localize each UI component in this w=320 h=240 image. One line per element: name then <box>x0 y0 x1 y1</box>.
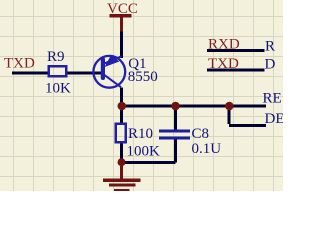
svg-text:DE: DE <box>265 111 284 127</box>
svg-text:0.1U: 0.1U <box>192 141 222 157</box>
svg-text:8550: 8550 <box>128 69 158 85</box>
svg-text:VCC: VCC <box>107 1 138 17</box>
svg-text:TXD: TXD <box>4 55 35 71</box>
svg-text:TXD: TXD <box>208 56 239 72</box>
svg-text:D: D <box>265 57 276 73</box>
svg-text:C8: C8 <box>192 126 210 142</box>
svg-text:R10: R10 <box>128 126 153 142</box>
svg-text:10K: 10K <box>45 81 71 97</box>
svg-text:R: R <box>265 39 275 55</box>
svg-text:RXD: RXD <box>208 37 240 53</box>
svg-text:100K: 100K <box>127 144 161 160</box>
svg-text:R9: R9 <box>47 49 65 65</box>
svg-text:RE: RE <box>263 91 282 107</box>
